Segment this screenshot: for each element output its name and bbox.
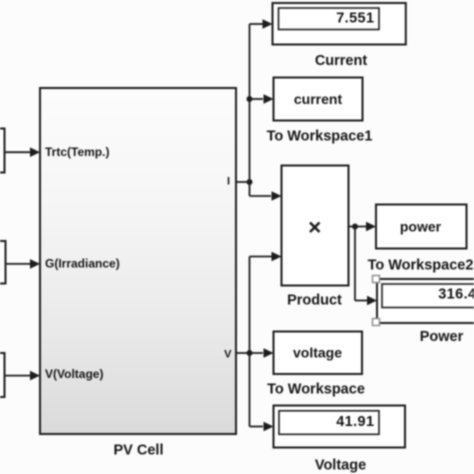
svg-text:To Workspace1: To Workspace1 bbox=[267, 129, 373, 145]
wire In3 to PV Cell V input bbox=[5, 371, 41, 381]
svg-text:7.551: 7.551 bbox=[336, 11, 374, 27]
To Workspace1 block (current) bbox=[274, 78, 363, 121]
wire I output trunk bbox=[236, 19, 282, 201]
label Power bbox=[420, 329, 464, 345]
svg-text:V(Voltage): V(Voltage) bbox=[45, 367, 103, 381]
selection handle bottom-left of Power display bbox=[373, 319, 380, 326]
display Current (7.551) bbox=[273, 3, 406, 45]
svg-text:G(Irradiance): G(Irradiance) bbox=[45, 257, 120, 271]
PV Cell block bbox=[40, 88, 236, 434]
svg-text:power: power bbox=[400, 219, 442, 235]
svg-text:To Workspace: To Workspace bbox=[267, 382, 365, 398]
wire In2 to PV Cell G input bbox=[6, 259, 41, 269]
junction dot at V port branch bbox=[247, 350, 253, 356]
label To Workspace1 bbox=[267, 129, 373, 145]
label PV Cell bbox=[114, 443, 164, 459]
input block In3 (left edge, cut off) bbox=[0, 353, 5, 397]
display Power (316.4, cut off at right) bbox=[377, 279, 474, 323]
To Workspace2 block (power) bbox=[376, 205, 467, 249]
wire In1 to PV Cell Trtc input bbox=[5, 147, 41, 157]
svg-text:current: current bbox=[294, 91, 343, 107]
svg-text:Power: Power bbox=[420, 329, 464, 345]
input block In1 (left edge, cut off) bbox=[0, 129, 5, 173]
display Voltage (41.91) bbox=[274, 406, 406, 448]
wire product output bbox=[349, 222, 378, 306]
svg-text:316.4: 316.4 bbox=[438, 287, 474, 303]
To Workspace block (voltage) bbox=[274, 332, 363, 375]
junction dot at I port branch bbox=[247, 179, 253, 185]
label Voltage bbox=[315, 458, 366, 474]
label Current bbox=[315, 53, 368, 69]
label To Workspace2 bbox=[368, 258, 474, 274]
svg-text:I: I bbox=[227, 176, 230, 188]
svg-text:Product: Product bbox=[287, 293, 342, 309]
junction dot at current branch bbox=[247, 96, 253, 102]
selection handle top-left of Power display bbox=[373, 276, 380, 283]
svg-text:41.91: 41.91 bbox=[336, 414, 374, 430]
svg-text:voltage: voltage bbox=[293, 345, 342, 361]
wire V output trunk bbox=[236, 252, 282, 432]
label To Workspace bbox=[267, 382, 365, 398]
junction dot at product output bbox=[352, 224, 358, 230]
svg-text:Trtc(Temp.): Trtc(Temp.) bbox=[45, 145, 109, 159]
svg-text:PV Cell: PV Cell bbox=[114, 443, 164, 459]
svg-text:Voltage: Voltage bbox=[315, 458, 366, 474]
svg-text:Current: Current bbox=[315, 53, 368, 69]
label Product bbox=[287, 293, 342, 309]
input block In2 (left edge, cut off) bbox=[0, 241, 6, 284]
product block U1 bbox=[282, 166, 349, 286]
svg-text:V: V bbox=[224, 349, 232, 361]
svg-text:To Workspace2: To Workspace2 bbox=[368, 258, 474, 274]
